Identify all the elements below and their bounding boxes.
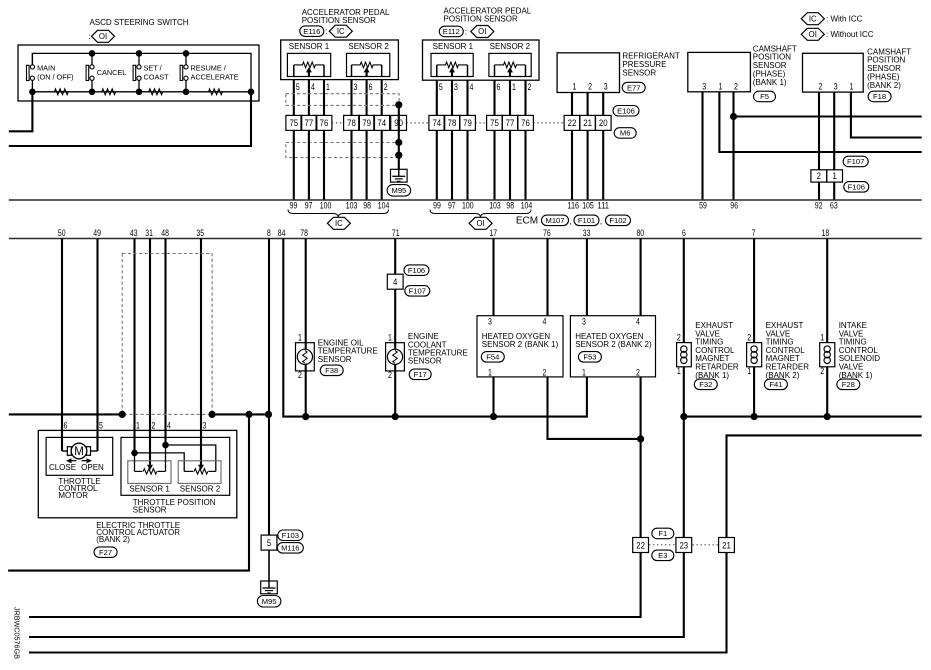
svg-text:M107: M107	[546, 216, 565, 225]
connector F107 oval (coolant)	[405, 286, 430, 297]
svg-text:5: 5	[99, 420, 103, 430]
svg-text:M116: M116	[281, 544, 299, 553]
svg-text:2: 2	[734, 81, 738, 91]
svg-text:59: 59	[699, 200, 707, 210]
wire ECM 7 to F41	[753, 239, 755, 343]
wire right bus to connector 21	[727, 435, 922, 537]
junction dot HO2S bank2 pin2 / bank1 pin2	[637, 435, 644, 442]
connector F18 oval	[868, 91, 891, 102]
svg-text:98: 98	[506, 200, 514, 210]
svg-text:: With ICC: : With ICC	[826, 15, 863, 24]
svg-text:1: 1	[747, 366, 751, 376]
svg-text:1: 1	[573, 81, 577, 91]
svg-text:F106: F106	[848, 183, 865, 192]
wire F32 to valve-timing ground bus	[683, 367, 685, 538]
svg-text:79: 79	[463, 117, 472, 128]
svg-text:63: 63	[830, 200, 838, 210]
svg-text:2: 2	[817, 170, 821, 181]
TPS pin1 branch wire	[135, 453, 185, 472]
inline connector 23 box	[676, 538, 692, 553]
wire ECM 6 to F32	[683, 239, 685, 343]
wire ECM 31 to TPS pin2	[149, 239, 151, 465]
svg-text:SENSOR 1: SENSOR 1	[289, 42, 330, 51]
heated oxygen sensor 2 bank2 box	[570, 316, 655, 377]
svg-text:23: 23	[679, 539, 688, 550]
svg-text:74: 74	[432, 117, 441, 128]
TPS pin4 junction dot	[162, 442, 169, 449]
svg-text:96: 96	[730, 200, 738, 210]
coil symbol F41	[751, 346, 757, 352]
svg-text:4: 4	[636, 316, 640, 326]
svg-text:2: 2	[388, 370, 392, 380]
wire coolant sensor to ground bus	[394, 365, 396, 417]
APP sensor E116 box	[281, 40, 399, 80]
svg-text:SENSOR: SENSOR	[408, 357, 442, 366]
svg-text:21: 21	[583, 117, 592, 128]
svg-text:1: 1	[298, 333, 302, 343]
svg-text:97: 97	[305, 200, 313, 210]
ASCD inner top rail wire	[32, 53, 251, 91]
svg-text:ECM: ECM	[516, 215, 538, 226]
svg-text:E106: E106	[617, 107, 635, 116]
wire E77 105 to ECM	[587, 130, 589, 200]
svg-text::: :	[88, 32, 90, 41]
connector E77 oval	[622, 82, 645, 93]
exhaust valve timing retarder bank1 F32 box	[677, 343, 692, 367]
svg-text:71: 71	[392, 228, 400, 238]
svg-text:79: 79	[362, 117, 371, 128]
svg-text:31: 31	[145, 228, 153, 238]
svg-text:F107: F107	[847, 157, 864, 166]
svg-text:SENSOR 1: SENSOR 1	[129, 485, 170, 494]
wire E112 97 to ECM	[451, 130, 453, 200]
camshaft position sensor bank2 box	[803, 53, 864, 92]
connector M6 oval	[614, 128, 636, 139]
svg-text:F106: F106	[408, 266, 425, 275]
svg-text:M95: M95	[262, 597, 277, 606]
svg-text:76: 76	[320, 117, 329, 128]
brace under E112 pins	[430, 210, 531, 218]
svg-text:74: 74	[377, 117, 386, 128]
wire connector21 to bottom line3	[29, 553, 727, 653]
inline connector 21 box	[719, 538, 735, 553]
ASCD steering switch box	[18, 45, 259, 101]
IC legend tag	[801, 13, 824, 25]
svg-text:4: 4	[311, 82, 315, 92]
svg-text:F38: F38	[325, 366, 338, 375]
wire E112 pin x=436.8	[436, 80, 438, 115]
svg-text:3: 3	[834, 81, 838, 91]
junction dot oil temp sensor ground	[302, 413, 309, 420]
svg-text:1: 1	[582, 367, 586, 377]
ground bus line right segment	[212, 413, 268, 415]
svg-text:F18: F18	[873, 92, 886, 101]
svg-text:100: 100	[320, 200, 332, 210]
svg-text:4: 4	[470, 82, 474, 92]
E116 sensor2 potentiometer	[347, 53, 390, 76]
junction dots on ASCD top rail	[89, 50, 96, 57]
svg-text:21: 21	[722, 539, 731, 550]
resistor in ASCD rail 2	[102, 89, 116, 95]
wire ECM 80 to HO2S bank2 pin4	[640, 239, 642, 316]
switch CANCEL contact	[86, 65, 89, 80]
wire E116 103 to ECM	[350, 130, 352, 200]
coil symbol F28	[824, 346, 830, 352]
svg-text:ACCELERATE: ACCELERATE	[191, 72, 239, 81]
wire connector22 to bottom line1	[29, 553, 641, 618]
svg-text:(BANK 1): (BANK 1)	[753, 78, 787, 87]
svg-text:1: 1	[512, 82, 516, 92]
svg-text:104: 104	[521, 200, 533, 210]
electric throttle control actuator box	[38, 430, 237, 517]
junction dot camshaft supply	[730, 113, 737, 120]
svg-text:F1: F1	[658, 529, 667, 538]
svg-text:22: 22	[568, 117, 577, 128]
wire ECM 84 sensor-ground bus	[283, 239, 587, 417]
wire E116 pin x=366.6	[366, 80, 368, 116]
wire E116 100 to ECM	[323, 130, 325, 200]
svg-text:F53: F53	[583, 353, 596, 362]
svg-text:3: 3	[488, 316, 492, 326]
harness connector row E116	[286, 115, 302, 130]
svg-text:OI: OI	[476, 219, 484, 228]
dotted link connector 22-23	[649, 544, 676, 546]
thermistor symbol F38	[297, 349, 312, 364]
svg-text:MOTOR: MOTOR	[58, 491, 88, 500]
svg-text:1: 1	[719, 81, 723, 91]
TPS sensor1 resistor	[134, 453, 136, 472]
svg-text:2: 2	[298, 370, 302, 380]
svg-text::: :	[465, 27, 467, 36]
connector F1 oval	[652, 528, 674, 539]
svg-text::: :	[325, 27, 327, 36]
TPS pin4 branch wire	[166, 445, 216, 471]
svg-text:1: 1	[832, 170, 836, 181]
svg-text:RESUME /: RESUME /	[191, 63, 227, 72]
coil symbol F32	[681, 346, 687, 352]
svg-text:F41: F41	[769, 380, 782, 389]
wire E77 111 to ECM	[602, 130, 604, 200]
camshaft position sensor bank1 box	[688, 52, 751, 91]
svg-text:IC: IC	[337, 27, 345, 36]
switch RESUME contact	[180, 65, 183, 80]
wire connector5 to ground M95	[268, 550, 270, 581]
junction dot F41 ground	[751, 413, 758, 420]
throttle position sensor box	[121, 437, 230, 495]
wire ECM 43 to TPS pin1	[133, 239, 135, 453]
wire E112 98 to ECM	[509, 130, 511, 200]
svg-text:SENSOR 2: SENSOR 2	[180, 485, 221, 494]
motor arrow close	[66, 458, 72, 463]
inline connector 5 box	[261, 535, 277, 550]
svg-text:1: 1	[388, 333, 392, 343]
svg-text:7: 7	[752, 228, 756, 238]
OI legend tag	[801, 28, 824, 40]
svg-text:97: 97	[448, 200, 456, 210]
junction dots on ASCD bottom rail	[29, 89, 36, 96]
ground symbol M95 (APP shield)	[391, 169, 408, 182]
svg-text:SENSOR 2: SENSOR 2	[490, 42, 531, 51]
svg-text:F54: F54	[486, 353, 499, 362]
wire E112 pin x=467.5	[466, 80, 468, 115]
svg-text:SENSOR 2 (BANK 1): SENSOR 2 (BANK 1)	[482, 340, 559, 349]
switch SET contact	[133, 65, 136, 80]
shield drain dots lower	[395, 139, 402, 146]
wire E116 pin x=381.7	[381, 80, 383, 116]
wire E112 104 to ECM	[524, 130, 526, 200]
svg-text:: Without ICC: : Without ICC	[826, 30, 874, 39]
harness connector row E112	[429, 115, 445, 130]
connector M116 oval	[277, 543, 303, 554]
svg-text:2: 2	[820, 366, 824, 376]
svg-text:1: 1	[488, 367, 492, 377]
wire F18 pin1 to right	[851, 92, 922, 137]
svg-text:78: 78	[300, 228, 308, 238]
wire E112 pin x=452	[451, 80, 453, 115]
svg-text:50: 50	[58, 228, 66, 238]
svg-text:COAST: COAST	[144, 72, 170, 81]
connector F32 oval	[694, 379, 717, 390]
valve timing ground bus	[684, 416, 922, 418]
wire shield drain 90 to ground	[398, 105, 400, 170]
wire E116 pin x=351.5	[350, 80, 352, 116]
svg-text:6: 6	[682, 228, 686, 238]
wire E116 pin x=308.9	[308, 80, 310, 116]
svg-text:4: 4	[393, 276, 397, 287]
connector F106 oval (coolant)	[404, 265, 429, 276]
throttle control motor box	[46, 437, 113, 475]
svg-text:F17: F17	[414, 370, 427, 379]
wire F18 pin3 down	[833, 92, 835, 170]
svg-text:2: 2	[384, 82, 388, 92]
resistor in ASCD rail 1	[54, 89, 68, 95]
svg-text:(ON / OFF): (ON / OFF)	[37, 72, 73, 81]
svg-text:76: 76	[521, 117, 530, 128]
connector F28 oval	[837, 379, 860, 390]
svg-text:104: 104	[378, 200, 390, 210]
connector E3 oval	[652, 550, 674, 561]
svg-text:100: 100	[462, 200, 474, 210]
svg-text:ASCD STEERING SWITCH: ASCD STEERING SWITCH	[89, 18, 188, 27]
dotted connector link E112	[475, 122, 486, 124]
connector F38 oval	[320, 365, 343, 376]
TPS sensor2 resistor	[184, 470, 193, 472]
wire ECM 18 to F28	[826, 239, 828, 343]
wire E116 99 to ECM	[293, 130, 295, 200]
svg-text:92: 92	[815, 200, 823, 210]
ground connector M95 oval lower	[257, 596, 281, 608]
wire E112 100 to ECM	[466, 130, 468, 200]
ground bus line left segment	[9, 413, 122, 415]
svg-text:1: 1	[136, 420, 140, 430]
svg-text:3: 3	[203, 420, 207, 430]
TPS sensor1 wiper	[147, 465, 153, 470]
svg-text:SENSOR 2 (BANK 2): SENSOR 2 (BANK 2)	[575, 340, 652, 349]
svg-text:4: 4	[543, 316, 547, 326]
wire ECM 33 to HO2S bank2 pin3	[586, 239, 588, 316]
E112 sensor2 potentiometer	[489, 53, 531, 76]
wire HO2S bank2 pin2 down	[640, 377, 642, 538]
svg-text:22: 22	[636, 539, 645, 550]
svg-text:35: 35	[196, 228, 204, 238]
svg-text:99: 99	[433, 200, 441, 210]
svg-text:(BANK 1): (BANK 1)	[839, 371, 873, 380]
wire E77 pin3	[602, 93, 604, 116]
svg-text:(BANK 2): (BANK 2)	[766, 371, 800, 380]
svg-text:3: 3	[582, 316, 586, 326]
exhaust valve timing retarder bank2 F41 box	[747, 343, 762, 367]
svg-text:3: 3	[454, 82, 458, 92]
throttle motor wire pin5	[91, 450, 98, 452]
refrigerant pressure sensor box	[557, 53, 619, 93]
motor terminal left	[67, 447, 71, 456]
svg-text:8: 8	[267, 228, 271, 238]
wire E116 104 to ECM	[381, 130, 383, 200]
svg-text:103: 103	[346, 200, 358, 210]
svg-text:116: 116	[568, 200, 580, 210]
svg-text:43: 43	[130, 228, 138, 238]
svg-text:POSITION SENSOR: POSITION SENSOR	[302, 16, 376, 25]
engine oil temperature sensor F38 box	[296, 343, 315, 371]
junction dot HO2S bank1 ground	[490, 413, 497, 420]
svg-text:F32: F32	[699, 380, 712, 389]
svg-text:6: 6	[64, 420, 68, 430]
connector F103 oval	[278, 530, 303, 541]
svg-text:SENSOR: SENSOR	[622, 68, 656, 77]
connector F27 oval	[94, 547, 117, 558]
svg-text:99: 99	[290, 200, 298, 210]
TPS sensor1 pot box	[128, 461, 171, 484]
svg-text:78: 78	[448, 117, 457, 128]
svg-text:F101: F101	[578, 216, 595, 225]
junction dot coolant temp sensor ground	[392, 413, 399, 420]
wire F5 pin1 to right	[719, 92, 921, 152]
svg-text:CANCEL: CANCEL	[97, 68, 127, 77]
svg-text:1: 1	[326, 82, 330, 92]
connector F107 oval	[843, 156, 868, 167]
APP sensor E112 box	[423, 40, 540, 80]
shield drain dot right	[209, 411, 216, 418]
junction dot ground bus / ECM pin8 wire	[265, 411, 272, 418]
wire ECM 48 to TPS pin4	[164, 239, 166, 446]
wire F18 92 to ECM	[818, 182, 820, 200]
wire E116 97 to ECM	[308, 130, 310, 200]
svg-text:76: 76	[543, 228, 551, 238]
TPS sensor2 pot box	[178, 461, 221, 484]
connector E112 oval	[439, 26, 463, 37]
TPS pin1 junction dot	[131, 450, 138, 457]
connector E106 oval	[613, 106, 639, 117]
ground connector M95 oval	[387, 185, 411, 197]
intake valve timing solenoid F28 box	[820, 343, 835, 367]
IC tag under brace	[327, 217, 350, 229]
wire ECM 49 to throttle motor pin5	[96, 239, 98, 452]
wire HO2S bank1 pin2 down	[548, 377, 641, 439]
svg-text:OPEN: OPEN	[81, 463, 104, 472]
svg-text:IC: IC	[809, 14, 817, 23]
svg-text:OI: OI	[99, 32, 107, 41]
svg-text:M: M	[74, 446, 84, 458]
wire HO2S bank1 pin1 to ground bus	[492, 377, 494, 417]
harness connector row E77	[564, 115, 580, 130]
svg-text:OI: OI	[809, 30, 817, 39]
svg-text:2: 2	[528, 82, 532, 92]
E116 sensor1 potentiometer	[287, 53, 330, 76]
wire E116 pin x=293.8	[293, 80, 295, 116]
TPS sensor2 wiper	[198, 465, 204, 470]
wire E77 116 to ECM	[571, 130, 573, 200]
resistor in ASCD rail 4	[208, 89, 222, 95]
svg-text:1: 1	[677, 366, 681, 376]
shield drain junction dot upper	[395, 101, 402, 108]
connector F17 oval	[409, 369, 431, 380]
svg-text:49: 49	[93, 228, 101, 238]
svg-text:78: 78	[347, 117, 356, 128]
wire camshaft supply to right	[734, 115, 922, 117]
wire F5 pin2 to ECM 96	[732, 92, 734, 200]
shield dashed box E116 lower	[286, 143, 399, 158]
svg-text:M6: M6	[620, 129, 631, 138]
E112 sensor1 potentiometer	[431, 53, 473, 76]
svg-text:F28: F28	[842, 380, 855, 389]
svg-text:OI: OI	[478, 27, 486, 36]
svg-text:3: 3	[604, 81, 608, 91]
svg-text:48: 48	[161, 228, 169, 238]
motor terminal right	[87, 447, 91, 456]
svg-text:77: 77	[305, 117, 314, 128]
wire E112 pin x=525.5	[524, 80, 526, 115]
junction dot F28 ground	[824, 413, 831, 420]
resistor in ASCD rail 3	[149, 89, 163, 95]
svg-text:6: 6	[369, 82, 373, 92]
svg-text:6: 6	[497, 82, 501, 92]
svg-text:103: 103	[489, 200, 501, 210]
svg-text:,: ,	[569, 217, 571, 226]
svg-text:F103: F103	[282, 531, 299, 540]
svg-text:JRBWC0576GB: JRBWC0576GB	[13, 607, 22, 659]
svg-text:80: 80	[636, 228, 644, 238]
wire oil temp sensor to ground bus	[305, 365, 307, 417]
camshaft inline connector boxes 2|1	[811, 170, 827, 182]
engine coolant temperature sensor F17 box	[386, 343, 405, 371]
svg-text:E3: E3	[658, 551, 667, 560]
svg-text:2: 2	[588, 81, 592, 91]
svg-text:105: 105	[582, 200, 594, 210]
wire ground bus to bottom-left stub	[8, 414, 249, 570]
wire connector23 to bottom line2	[29, 553, 684, 638]
ground symbol M95 (ECM pin8)	[261, 581, 278, 594]
connector E116 oval	[300, 26, 324, 37]
svg-text:5: 5	[267, 537, 271, 548]
connector F106 oval	[844, 182, 869, 193]
wire F41 to ground bus	[753, 367, 755, 417]
svg-text:3: 3	[354, 82, 358, 92]
brace under E116 pins	[288, 210, 389, 218]
wire ECM 17 to HO2S bank1 pin3	[492, 239, 494, 316]
motor arrow open	[87, 458, 93, 463]
svg-text:2: 2	[543, 367, 547, 377]
switch MAIN contact	[27, 65, 30, 80]
svg-text:4: 4	[167, 420, 171, 430]
wire E112 99 to ECM	[436, 130, 438, 200]
throttle motor wire pin6	[62, 450, 67, 452]
svg-text:2: 2	[152, 420, 156, 430]
svg-text:M95: M95	[392, 186, 407, 195]
wire connector4 to coolant sensor	[394, 289, 396, 349]
svg-text:111: 111	[597, 200, 609, 210]
svg-text:SENSOR 1: SENSOR 1	[433, 42, 474, 51]
svg-text:(BANK 2): (BANK 2)	[867, 81, 901, 90]
